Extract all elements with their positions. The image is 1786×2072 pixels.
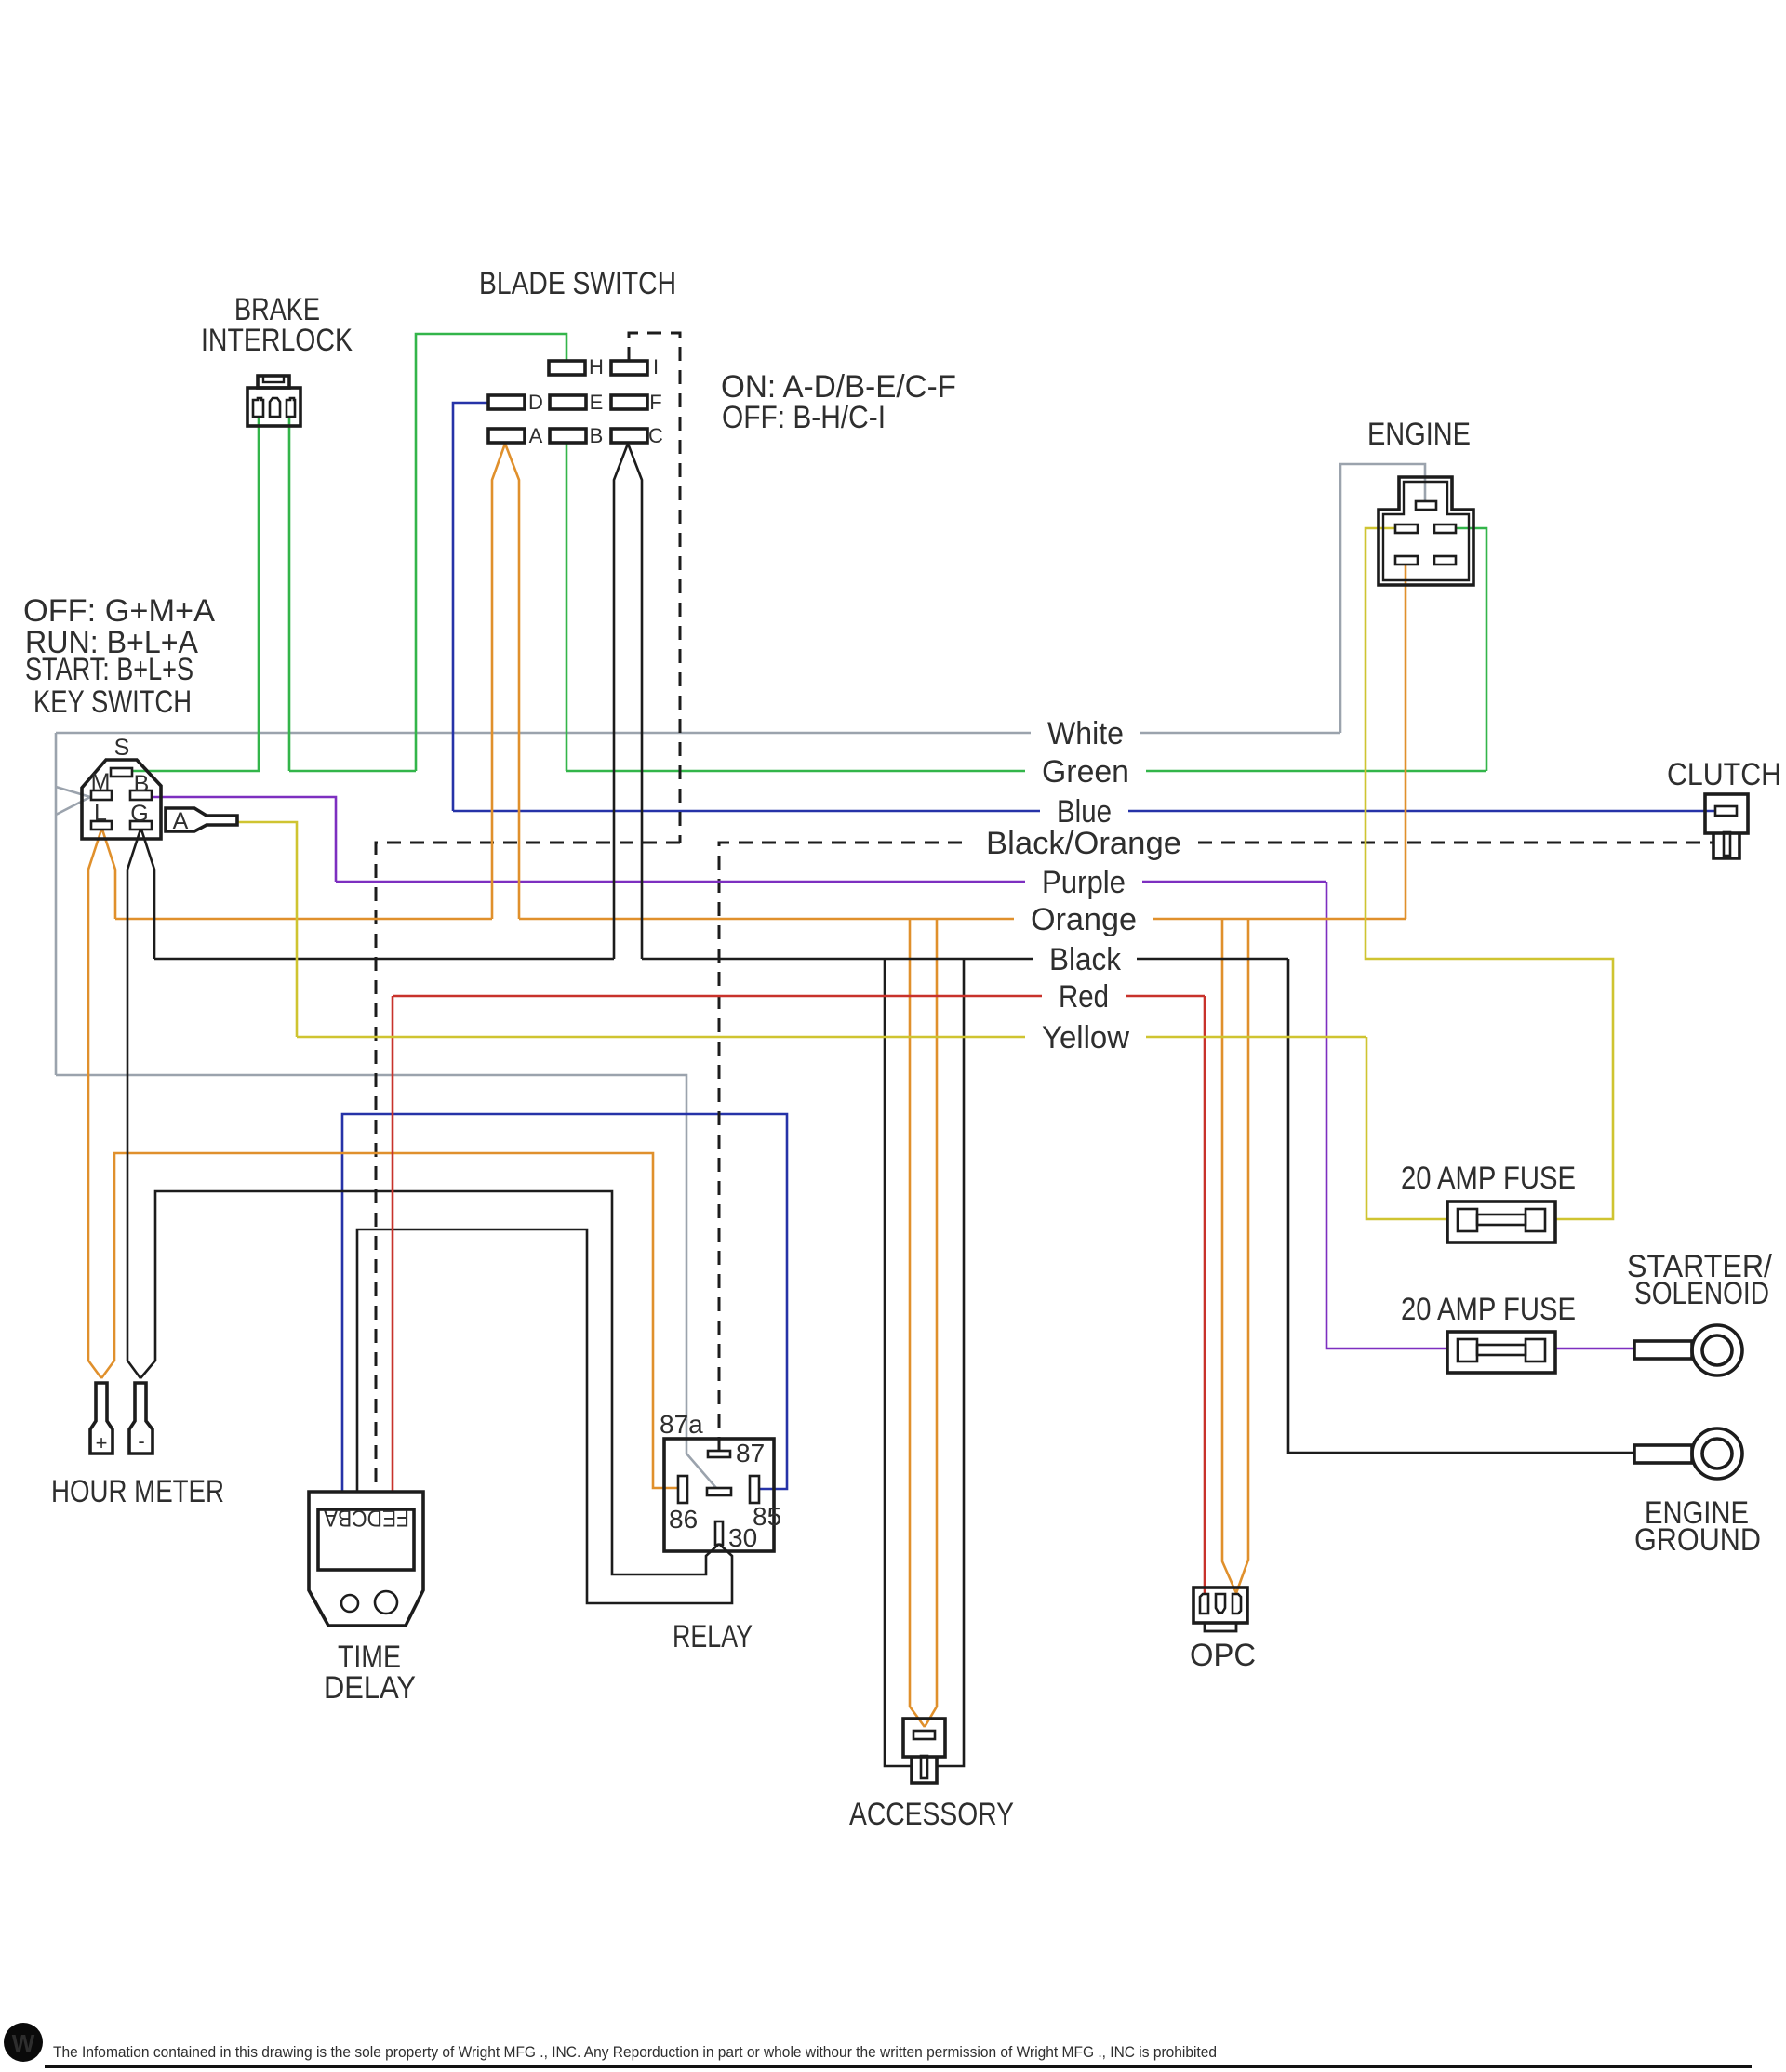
- OPC connector pin 1: [1200, 1594, 1208, 1614]
- wire red row right segment: [1126, 995, 1205, 998]
- svg-text:INTERLOCK: INTERLOCK: [201, 323, 353, 358]
- wire green row segment B-to-label: [566, 770, 1025, 773]
- svg-text:Orange: Orange: [1031, 902, 1137, 937]
- wire black to engine ground ring: [1288, 959, 1634, 1453]
- key switch pin B: [130, 790, 152, 800]
- relay pin 87: [708, 1451, 730, 1457]
- wire red time delay riser: [392, 996, 394, 1492]
- wire yellow fuse 1 to engine left-mid pin: [1366, 528, 1613, 1219]
- accessory connector body: [903, 1719, 945, 1757]
- wire white key-M arrow stubs: [56, 787, 90, 815]
- wire black blade C fork left: [614, 444, 628, 959]
- wire blue row left segment: [453, 810, 1040, 813]
- blade switch terminal E: [550, 395, 586, 409]
- wire black time delay to relay 30 outer loop: [357, 1229, 732, 1603]
- wire red down to OPC: [1204, 996, 1206, 1595]
- svg-text:Black/Orange: Black/Orange: [986, 826, 1181, 861]
- wire black/orange dashed row right segment to clutch: [1198, 842, 1713, 844]
- svg-text:M: M: [91, 769, 111, 795]
- wire white left vertical: [55, 733, 58, 1075]
- key switch pin M: [91, 790, 112, 800]
- wire green riser to blade H: [416, 334, 566, 771]
- fuse F2 element: [1458, 1339, 1545, 1361]
- wire black blade C fork right: [628, 444, 642, 959]
- wire orange hour meter plus to relay 86: [101, 1153, 678, 1488]
- svg-text:SOLENOID: SOLENOID: [1634, 1276, 1769, 1311]
- svg-text:B: B: [590, 424, 604, 447]
- OPC connector pin 2: [1216, 1594, 1225, 1613]
- wire orange row left segment: [115, 918, 492, 921]
- svg-text:FEDCBA: FEDCBA: [324, 1505, 409, 1531]
- time delay small circle: [341, 1595, 358, 1612]
- key switch pin G: [130, 821, 152, 830]
- svg-text:87a: 87a: [660, 1410, 703, 1439]
- engine ground ring terminal: [1634, 1428, 1742, 1479]
- blade switch terminal D: [488, 395, 525, 409]
- relay pin 85: [750, 1476, 759, 1503]
- wire white to engine top pin: [1340, 464, 1425, 733]
- svg-text:L: L: [94, 800, 107, 826]
- blade switch terminal A: [488, 429, 525, 443]
- relay pin 86: [678, 1476, 687, 1503]
- wire black row left segment: [154, 958, 614, 961]
- svg-text:86: 86: [669, 1505, 698, 1534]
- svg-text:BLADE SWITCH: BLADE SWITCH: [479, 266, 676, 301]
- svg-text:CLUTCH: CLUTCH: [1667, 757, 1781, 792]
- svg-text:A: A: [173, 808, 189, 834]
- svg-text:DELAY: DELAY: [324, 1670, 416, 1706]
- accessory connector pin: [913, 1731, 935, 1739]
- svg-text:B: B: [134, 771, 150, 797]
- svg-text:START: B+L+S: START: B+L+S: [25, 652, 193, 687]
- hour meter minus spade: [129, 1383, 153, 1454]
- wire black/orange dashed relay 87 drop: [719, 843, 969, 1451]
- time delay body: [309, 1492, 423, 1626]
- wire green row segment label-to-engine: [1146, 770, 1486, 773]
- engine connector inner outline: [1383, 482, 1469, 580]
- relay box: [664, 1439, 774, 1551]
- wire black key-G fork right: [141, 830, 154, 959]
- svg-text:Red: Red: [1059, 979, 1109, 1015]
- svg-text:White: White: [1047, 716, 1124, 751]
- relay pin 30: [715, 1521, 723, 1545]
- starter/solenoid ring terminal: [1634, 1325, 1742, 1375]
- svg-text:RELAY: RELAY: [673, 1619, 753, 1654]
- svg-text:ACCESSORY: ACCESSORY: [849, 1797, 1014, 1832]
- wire black/orange dashed blade I loop: [629, 333, 680, 843]
- wire orange row mid segment: [519, 918, 1014, 921]
- wire orange accessory pair: [910, 919, 937, 1727]
- blade switch terminal B: [550, 429, 586, 443]
- svg-text:30: 30: [728, 1523, 757, 1552]
- time delay window: [318, 1509, 414, 1570]
- clutch connector tab slot: [1724, 832, 1730, 856]
- svg-text:H: H: [589, 355, 604, 379]
- wire green key-S to brake interlock left pin: [132, 418, 259, 771]
- hour meter plus spade: [90, 1383, 113, 1454]
- wire purple row left segment: [336, 881, 1025, 883]
- engine connector bottom-right pin: [1434, 556, 1456, 564]
- key switch pin L: [91, 821, 112, 830]
- relay pin 87a center: [707, 1488, 731, 1495]
- svg-text:OPC: OPC: [1190, 1638, 1256, 1673]
- wire black key-G fork left to hour meter minus: [127, 830, 140, 1378]
- brake interlock connector: [247, 376, 300, 426]
- wire orange engine riser: [1405, 564, 1407, 919]
- wire orange blade A fork left: [492, 444, 505, 919]
- svg-text:OFF: B-H/C-I: OFF: B-H/C-I: [722, 400, 886, 435]
- wire green to engine right-mid pin: [1457, 528, 1486, 771]
- wire black row mid segment: [642, 958, 1033, 961]
- wire yellow row left segment: [297, 1036, 1025, 1039]
- wire white to relay 87a: [56, 1075, 716, 1488]
- wire black hour meter minus to relay 30 inner loop: [140, 1191, 719, 1574]
- blade switch terminal F: [611, 395, 647, 409]
- svg-text:Yellow: Yellow: [1042, 1020, 1129, 1056]
- engine connector mid-right pin: [1434, 525, 1456, 533]
- engine connector mid-left pin: [1395, 525, 1418, 533]
- svg-text:I: I: [653, 355, 659, 379]
- svg-text:The Infomation contained in th: The Infomation contained in this drawing…: [53, 2043, 1217, 2061]
- svg-text:20 AMP FUSE: 20 AMP FUSE: [1401, 1161, 1576, 1196]
- svg-text:ENGINE: ENGINE: [1367, 417, 1471, 452]
- clutch connector body: [1705, 794, 1748, 833]
- wire orange key-L fork left to hour meter plus: [88, 830, 101, 1378]
- svg-text:W: W: [12, 2029, 35, 2057]
- key switch spade terminal A: [166, 808, 237, 831]
- accessory connector tab slot: [921, 1756, 927, 1778]
- svg-text:Purple: Purple: [1042, 865, 1126, 900]
- blade switch terminal I: [611, 361, 647, 375]
- fuse F1 holder: [1447, 1202, 1555, 1242]
- wire orange OPC pair: [1222, 919, 1248, 1593]
- svg-text:Blue: Blue: [1057, 794, 1112, 830]
- wire orange blade A fork right: [505, 444, 519, 919]
- key switch pin S: [111, 768, 132, 777]
- logo Wright MFG: [4, 2023, 43, 2062]
- engine connector top pin: [1416, 501, 1436, 510]
- wire yellow row right segment: [1146, 1036, 1366, 1039]
- OPC connector body: [1193, 1587, 1247, 1623]
- svg-text:+: +: [96, 1431, 108, 1454]
- svg-text:S: S: [114, 735, 130, 761]
- wire orange key-L fork right: [102, 830, 115, 919]
- wire orange row right segment: [1153, 918, 1406, 921]
- svg-text:F: F: [649, 391, 661, 414]
- wire purple fuse 2 to starter ring: [1555, 1348, 1634, 1350]
- time delay large circle: [375, 1591, 397, 1614]
- wire blue time-delay to relay 85: [342, 1114, 787, 1492]
- wire green blade B down: [566, 444, 568, 771]
- wire green row segment brake-to-riser: [289, 770, 416, 773]
- clutch connector pin: [1715, 806, 1737, 816]
- accessory connector bottom tab: [912, 1757, 937, 1783]
- wire blue row right segment to clutch: [1128, 810, 1716, 813]
- svg-text:E: E: [590, 391, 604, 414]
- wire blue blade D down: [453, 403, 488, 811]
- wire purple down to fuse 2: [1326, 882, 1447, 1348]
- fuse F2 holder: [1447, 1332, 1555, 1373]
- svg-text:-: -: [138, 1429, 144, 1453]
- key switch body: [82, 760, 161, 839]
- svg-text:D: D: [528, 391, 543, 414]
- blade switch terminal C: [611, 429, 647, 443]
- svg-text:KEY SWITCH: KEY SWITCH: [33, 684, 192, 720]
- clutch connector bottom tab: [1713, 833, 1739, 858]
- wire white row left segment: [56, 732, 1031, 735]
- svg-text:C: C: [648, 424, 663, 447]
- wire white row right segment: [1140, 732, 1340, 735]
- wire black/orange dashed row to time delay: [376, 843, 680, 1492]
- OPC connector bottom tab: [1205, 1623, 1236, 1631]
- engine connector outer outline: [1379, 477, 1473, 585]
- wire yellow down to fuse 1: [1366, 1037, 1447, 1219]
- svg-text:G: G: [130, 801, 148, 827]
- svg-text:20 AMP FUSE: 20 AMP FUSE: [1401, 1292, 1576, 1327]
- fuse F1 element: [1458, 1209, 1545, 1231]
- wire yellow key-A spade to riser: [237, 822, 297, 1037]
- svg-text:HOUR METER: HOUR METER: [51, 1474, 224, 1509]
- engine connector bottom-left pin: [1395, 556, 1418, 564]
- svg-text:Green: Green: [1042, 754, 1129, 790]
- wire purple key-B to riser: [152, 797, 336, 882]
- svg-text:87: 87: [736, 1439, 765, 1468]
- bottom rule: [45, 2065, 1752, 2068]
- svg-text:GROUND: GROUND: [1634, 1522, 1761, 1558]
- wire black accessory goalpost left: [885, 959, 912, 1766]
- blade switch terminal H: [549, 361, 585, 375]
- wire green brake interlock right pin down: [288, 418, 291, 771]
- svg-text:Black: Black: [1049, 942, 1122, 977]
- OPC connector pin 3: [1233, 1594, 1241, 1614]
- svg-text:OFF: G+M+A: OFF: G+M+A: [23, 593, 215, 629]
- wire purple row right segment: [1142, 881, 1326, 883]
- svg-text:A: A: [529, 424, 543, 447]
- wire black row right segment: [1137, 958, 1288, 961]
- wire black accessory goalpost right: [937, 959, 964, 1766]
- wire red row left segment: [393, 995, 1042, 998]
